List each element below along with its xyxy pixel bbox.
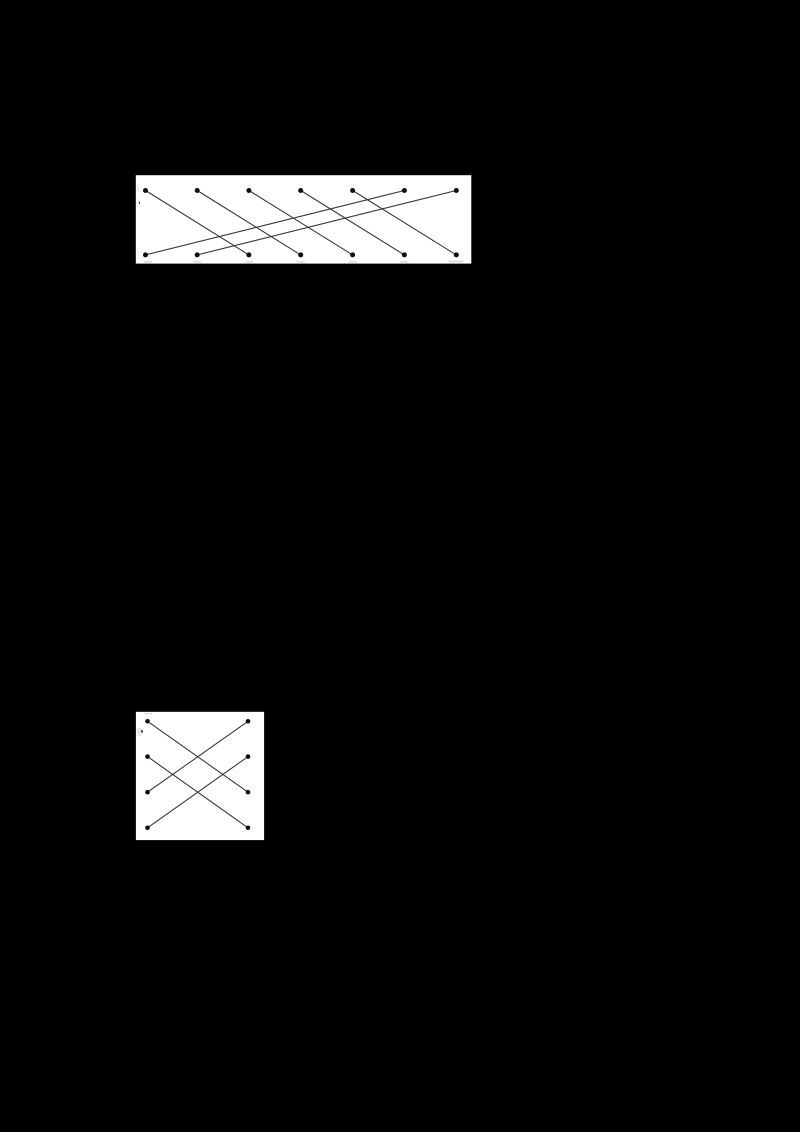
node R4 bbox=[246, 826, 251, 831]
node T1 bbox=[143, 188, 148, 193]
wire L2-R4 bbox=[148, 757, 249, 828]
wire T7-B2 bbox=[197, 191, 456, 255]
figure 1 panel (7-point shift-by-2 permutation diagram) bbox=[136, 175, 472, 263]
scan smudge under B4 bbox=[297, 261, 305, 263]
figure 2 panel (4-point swap permutation diagram) bbox=[136, 712, 264, 840]
wire L4-R2 bbox=[148, 757, 249, 828]
node B2 bbox=[195, 252, 200, 257]
wire T3-B5 bbox=[249, 191, 353, 255]
scan smudge under B1 bbox=[144, 261, 152, 263]
scan smudge under B2 bbox=[193, 261, 201, 263]
node B3 bbox=[246, 252, 251, 257]
node L2 bbox=[145, 754, 150, 759]
wire L3-R1 bbox=[148, 721, 249, 792]
node L4 bbox=[145, 826, 150, 831]
node B7 bbox=[454, 252, 459, 257]
wire T2-B4 bbox=[197, 191, 301, 255]
node B4 bbox=[298, 252, 303, 257]
scan smudge under B7 bbox=[449, 260, 464, 262]
scan smudge under B5 bbox=[349, 261, 357, 263]
wire T5-B7 bbox=[353, 191, 457, 255]
node R3 bbox=[246, 790, 251, 795]
scan smudge block at left margin of panel 2 bbox=[137, 728, 141, 736]
scan smudge at panel 1 left edge bottom bbox=[137, 248, 139, 256]
node T5 bbox=[350, 188, 355, 193]
stray ink mark left of T1 bbox=[139, 201, 140, 204]
node T3 bbox=[246, 188, 251, 193]
node T2 bbox=[195, 188, 200, 193]
node T7 bbox=[454, 188, 459, 193]
wire L1-R3 bbox=[148, 721, 249, 792]
wire T6-B1 bbox=[146, 191, 405, 255]
stray ink mark at left margin of panel 2 bbox=[141, 730, 143, 732]
wire T4-B6 bbox=[301, 191, 405, 255]
node B5 bbox=[350, 252, 355, 257]
node L1 bbox=[145, 719, 150, 724]
node B6 bbox=[402, 252, 407, 257]
node R2 bbox=[246, 754, 251, 759]
wire T1-B3 bbox=[146, 191, 249, 255]
scan smudge above L1 bbox=[144, 713, 152, 715]
node B1 bbox=[143, 252, 148, 257]
scan smudge at panel 1 left edge top bbox=[137, 184, 139, 192]
node L3 bbox=[145, 790, 150, 795]
node R1 bbox=[246, 719, 251, 724]
scan smudge under B6 bbox=[400, 261, 408, 263]
scan smudge under B3 bbox=[245, 261, 253, 263]
node T4 bbox=[298, 188, 303, 193]
node T6 bbox=[402, 188, 407, 193]
